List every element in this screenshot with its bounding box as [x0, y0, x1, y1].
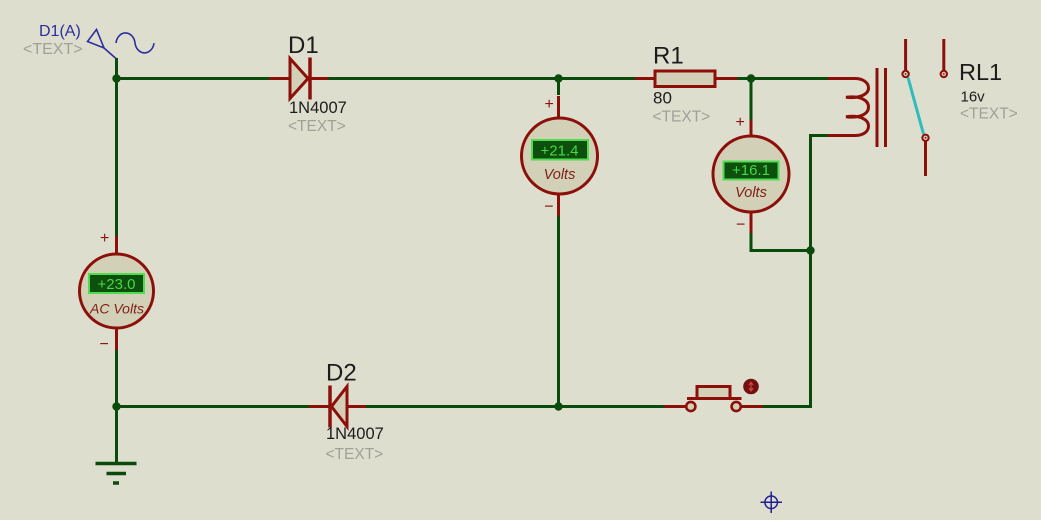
svg-text:Volts: Volts [735, 185, 767, 201]
origin marker [761, 492, 783, 514]
svg-text:R1: R1 [653, 43, 684, 70]
diode D1 [269, 58, 328, 100]
voltage probe D1(A) [88, 30, 155, 79]
wire left branch upper [115, 79, 118, 238]
svg-text:1N4007: 1N4007 [326, 425, 384, 443]
wire relay coil return [762, 136, 828, 407]
svg-text:−: − [736, 217, 745, 234]
diode D2 [309, 386, 366, 428]
junction ground node [112, 402, 120, 410]
svg-text:−: − [100, 336, 109, 353]
junction meter2 top node [747, 74, 755, 82]
svg-text:<TEXT>: <TEXT> [960, 106, 1018, 123]
wire top bus segment 3 [737, 77, 828, 80]
voltmeter 3 AC [80, 236, 154, 350]
svg-text:16v: 16v [961, 89, 986, 106]
relay switch armature [908, 78, 924, 135]
wire meter2 top stub [750, 79, 753, 123]
relay RL1 coil [828, 79, 869, 136]
svg-text:<TEXT>: <TEXT> [23, 41, 83, 58]
junction top-left node [112, 74, 120, 82]
wire top bus segment 1 [117, 77, 270, 80]
svg-text:+16.1: +16.1 [732, 162, 770, 179]
svg-text:D1: D1 [288, 32, 319, 59]
svg-text:+23.0: +23.0 [98, 276, 136, 293]
push button [664, 387, 763, 412]
wire meter1 top stub [557, 79, 560, 96]
svg-text:<TEXT>: <TEXT> [326, 446, 384, 463]
junction meter2 bottom node [806, 246, 814, 254]
relay switch pole [902, 39, 908, 77]
svg-text:Volts: Volts [544, 167, 576, 183]
svg-text:+: + [100, 230, 109, 247]
svg-text:1N4007: 1N4007 [289, 99, 347, 117]
wire left branch lower [115, 349, 118, 407]
ground [96, 464, 137, 484]
wire meter1 bottom branch [557, 215, 560, 407]
svg-text:+: + [736, 114, 745, 131]
wire bottom bus segment 1 [117, 405, 311, 408]
svg-text:−: − [544, 199, 553, 216]
junction meter1 bottom node [554, 402, 562, 410]
svg-text:+: + [545, 96, 554, 113]
svg-text:D2: D2 [326, 360, 357, 387]
svg-text:<TEXT>: <TEXT> [653, 109, 711, 126]
wire ground stub [115, 407, 118, 463]
voltmeter 2 [713, 120, 789, 233]
voltmeter 1 [522, 96, 598, 216]
wire meter2 bottom stub [751, 232, 810, 251]
svg-text:RL1: RL1 [959, 59, 1002, 85]
svg-text:D1(A): D1(A) [39, 23, 81, 40]
svg-text:80: 80 [653, 89, 672, 108]
relay core bars [877, 68, 886, 147]
svg-text:<TEXT>: <TEXT> [288, 118, 346, 135]
relay contact throw [922, 135, 928, 176]
resistor R1 [635, 71, 737, 87]
button toggle marker [743, 379, 759, 395]
relay NO contact pin [941, 39, 947, 77]
svg-text:AC Volts: AC Volts [89, 301, 144, 317]
svg-text:+21.4: +21.4 [541, 143, 579, 160]
junction meter1 top node [554, 74, 562, 82]
wire bottom bus segment 2 [366, 405, 665, 408]
wire top bus segment 2 [328, 77, 635, 80]
